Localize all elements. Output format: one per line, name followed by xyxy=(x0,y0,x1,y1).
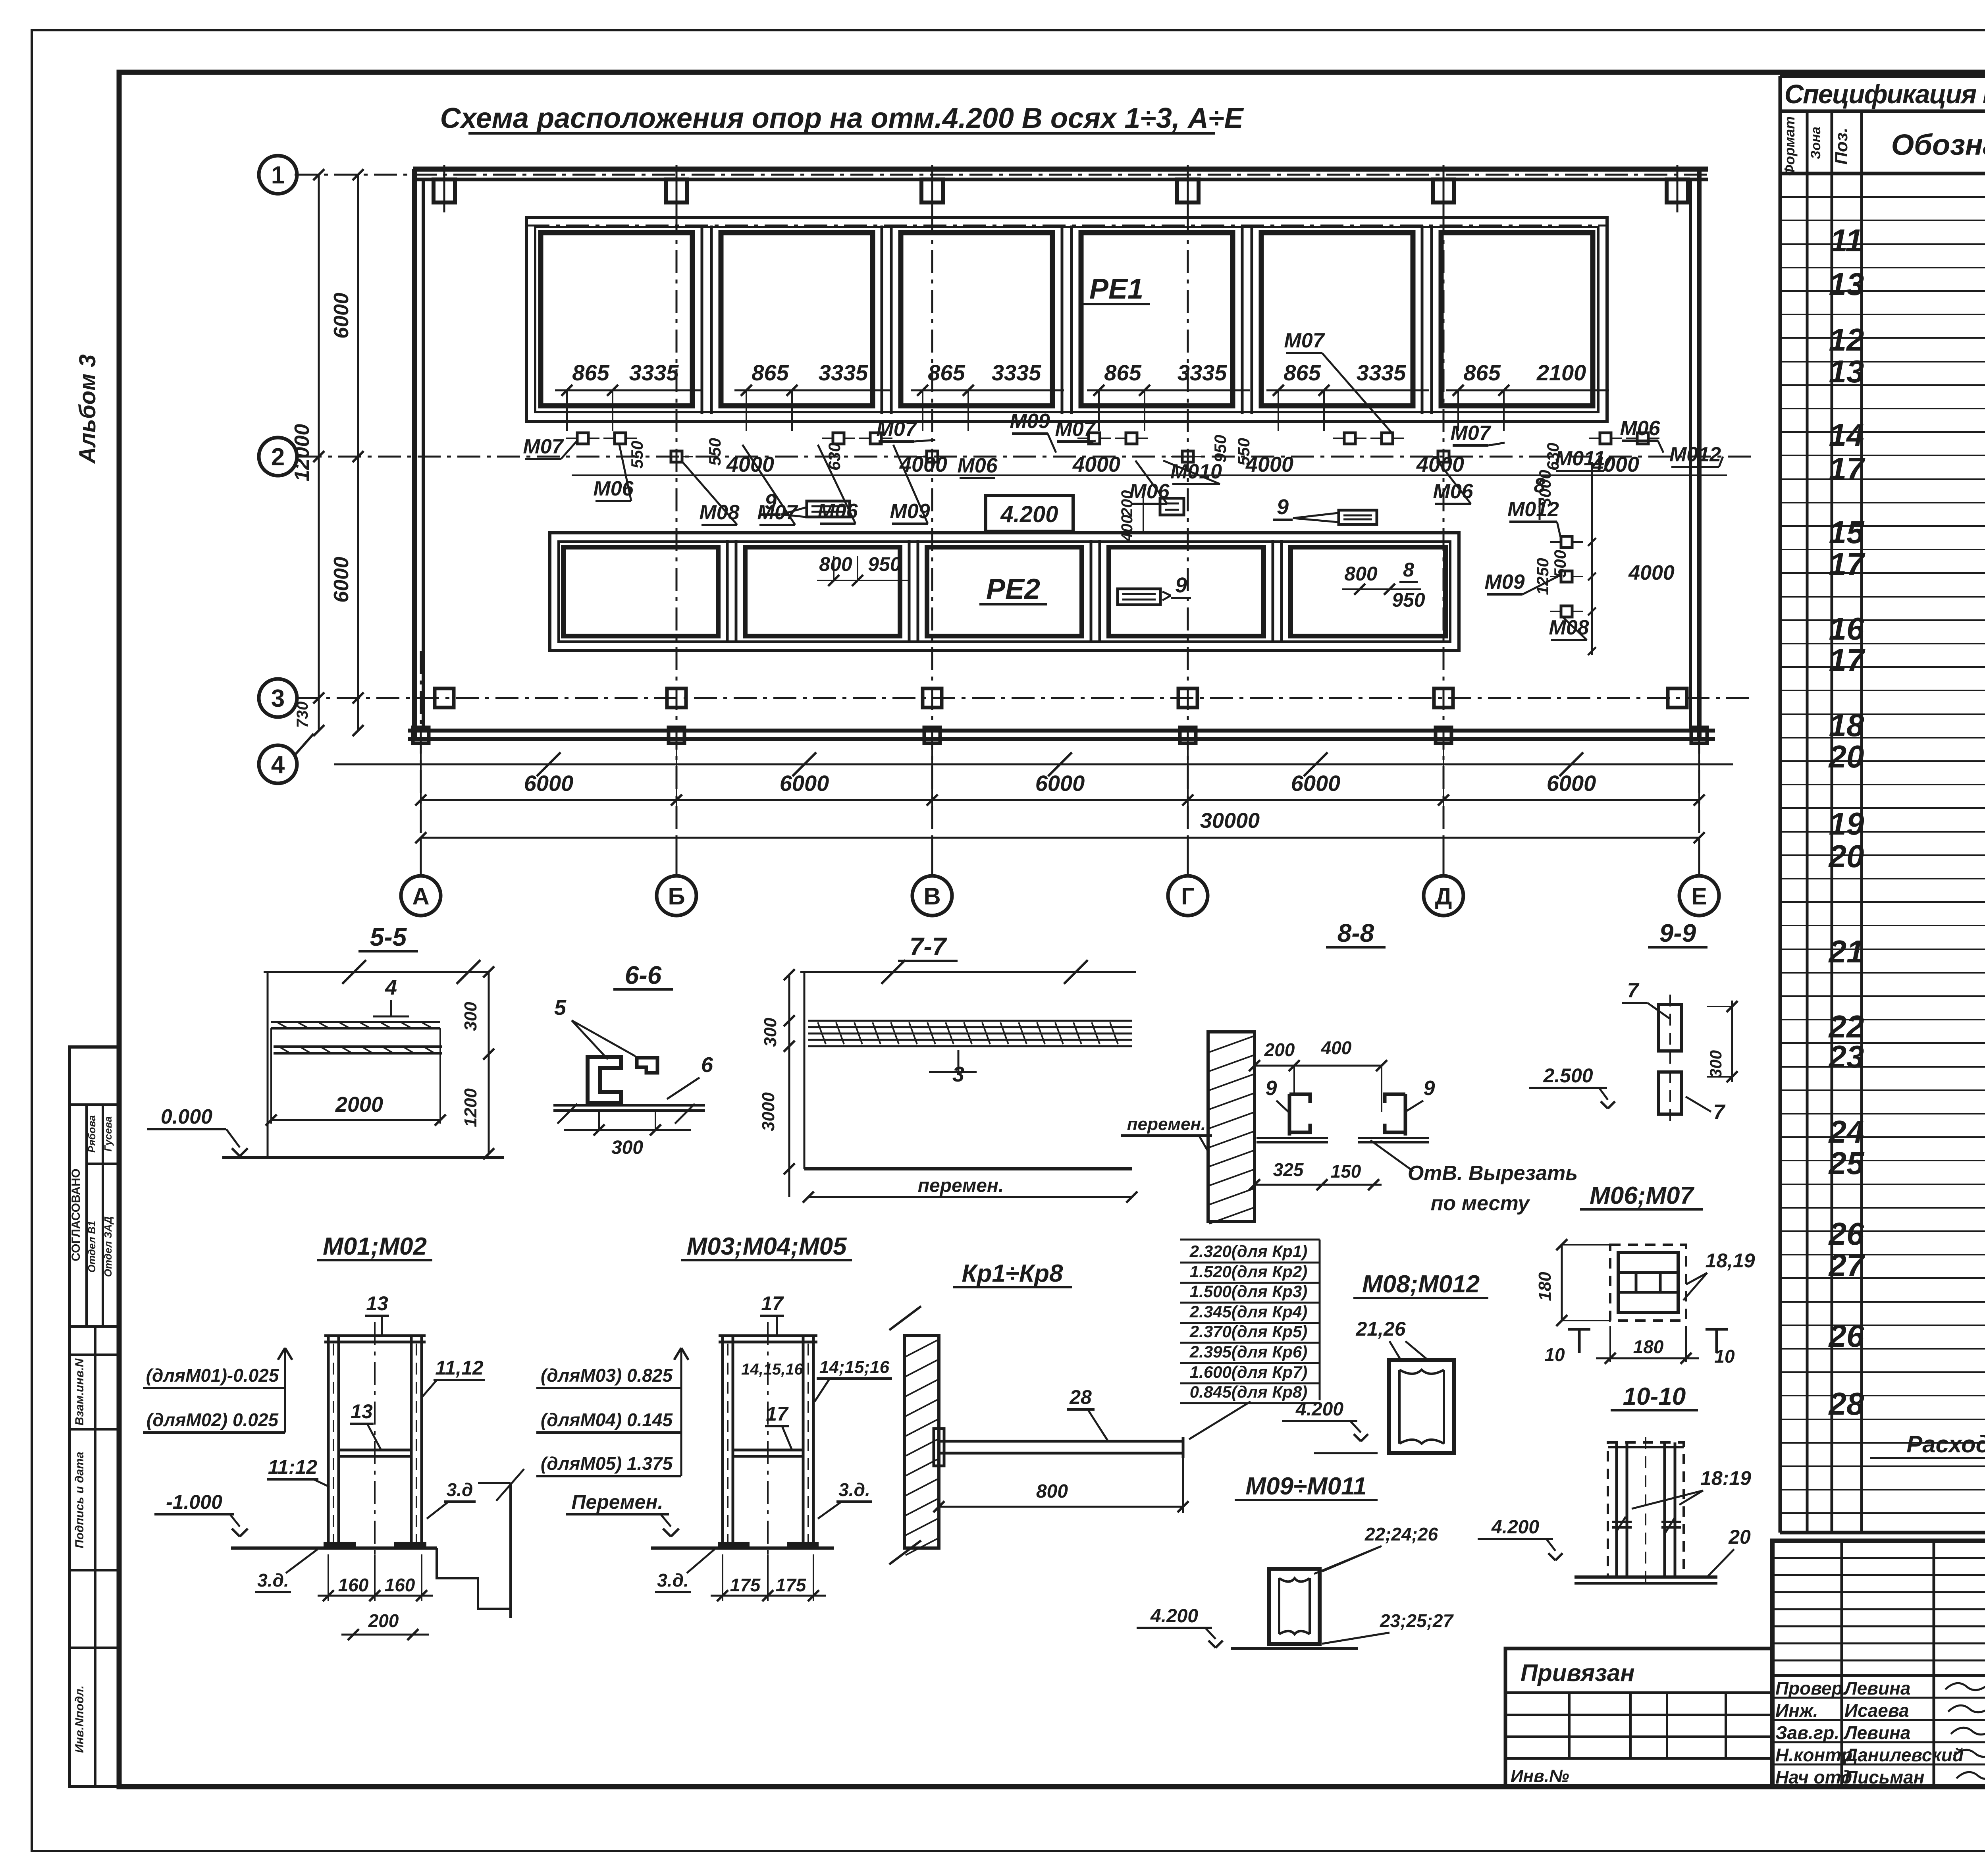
svg-text:0.845(для Кр8): 0.845(для Кр8) xyxy=(1190,1382,1307,1401)
svg-text:6000: 6000 xyxy=(1035,771,1085,796)
svg-text:2.320(для Кр1): 2.320(для Кр1) xyxy=(1189,1242,1307,1261)
svg-text:550: 550 xyxy=(1234,438,1253,466)
svg-text:200: 200 xyxy=(368,1610,399,1631)
svg-text:730: 730 xyxy=(294,702,311,728)
svg-text:М09: М09 xyxy=(1484,571,1524,594)
svg-text:Левина: Левина xyxy=(1843,1678,1910,1699)
svg-text:950: 950 xyxy=(1392,589,1425,611)
svg-text:30000: 30000 xyxy=(1200,809,1260,833)
svg-text:160: 160 xyxy=(385,1575,415,1595)
svg-text:Б: Б xyxy=(668,883,685,910)
svg-text:800: 800 xyxy=(819,553,852,575)
svg-text:150: 150 xyxy=(1331,1161,1361,1182)
svg-text:Инв.№: Инв.№ xyxy=(1511,1766,1569,1786)
svg-text:6000: 6000 xyxy=(1291,771,1341,796)
svg-text:М07: М07 xyxy=(523,435,564,458)
svg-text:Отдел ЗАД: Отдел ЗАД xyxy=(102,1217,114,1277)
svg-text:3.д.: 3.д. xyxy=(838,1479,870,1500)
svg-text:Поз.: Поз. xyxy=(1832,127,1851,164)
svg-text:Исаева: Исаева xyxy=(1844,1700,1909,1721)
svg-text:3335: 3335 xyxy=(629,360,679,385)
svg-text:28: 28 xyxy=(1828,1386,1864,1421)
svg-text:25: 25 xyxy=(1828,1145,1865,1181)
svg-text:175: 175 xyxy=(730,1575,761,1595)
svg-text:1.600(для Кр7): 1.600(для Кр7) xyxy=(1190,1363,1307,1381)
svg-text:5-5: 5-5 xyxy=(370,923,407,951)
svg-text:6000: 6000 xyxy=(330,557,353,603)
svg-text:800: 800 xyxy=(1344,563,1378,585)
svg-text:865: 865 xyxy=(1463,360,1501,385)
svg-text:865: 865 xyxy=(752,360,789,385)
svg-text:800: 800 xyxy=(1036,1481,1068,1502)
svg-text:ОтВ. Вырезать: ОтВ. Вырезать xyxy=(1408,1162,1578,1185)
svg-text:11:12: 11:12 xyxy=(268,1456,317,1478)
svg-text:865: 865 xyxy=(572,360,609,385)
svg-text:15: 15 xyxy=(1829,515,1865,550)
svg-text:2.345(для Кр4): 2.345(для Кр4) xyxy=(1189,1302,1307,1321)
svg-text:21,26: 21,26 xyxy=(1355,1318,1406,1340)
svg-text:865: 865 xyxy=(1104,360,1141,385)
svg-text:А: А xyxy=(412,883,429,910)
svg-text:Провер.: Провер. xyxy=(1775,1678,1848,1699)
svg-text:8: 8 xyxy=(1403,559,1414,581)
svg-text:14: 14 xyxy=(1829,417,1864,453)
svg-text:Формат: Формат xyxy=(1781,116,1798,176)
svg-text:2.370(для Кр5): 2.370(для Кр5) xyxy=(1189,1322,1307,1341)
svg-text:14,15,16: 14,15,16 xyxy=(741,1361,803,1378)
svg-text:1.520(для Кр2): 1.520(для Кр2) xyxy=(1190,1262,1307,1281)
svg-text:М010: М010 xyxy=(1170,460,1222,483)
svg-text:6: 6 xyxy=(701,1053,713,1077)
svg-text:Е: Е xyxy=(1691,883,1707,910)
svg-text:4: 4 xyxy=(271,751,285,779)
svg-text:Альбом 3: Альбом 3 xyxy=(75,354,100,464)
svg-text:27: 27 xyxy=(1828,1247,1866,1283)
svg-text:М06: М06 xyxy=(957,454,998,477)
svg-text:1200: 1200 xyxy=(461,1088,480,1127)
svg-text:М09: М09 xyxy=(1010,410,1050,433)
svg-text:12: 12 xyxy=(1829,322,1864,357)
svg-text:Данилевский: Данилевский xyxy=(1843,1745,1964,1765)
svg-text:17: 17 xyxy=(1829,546,1866,582)
svg-text:М06: М06 xyxy=(1620,417,1660,440)
svg-text:СОГЛАСОВАНО: СОГЛАСОВАНО xyxy=(69,1168,83,1261)
svg-text:Левина: Левина xyxy=(1843,1722,1910,1743)
svg-text:3335: 3335 xyxy=(992,360,1041,385)
svg-text:М07: М07 xyxy=(876,418,917,441)
svg-text:3.д.: 3.д. xyxy=(657,1570,689,1591)
svg-text:3.д: 3.д xyxy=(447,1479,473,1500)
svg-text:7-7: 7-7 xyxy=(910,932,948,961)
svg-text:17: 17 xyxy=(1829,642,1866,678)
svg-text:Взам.инв.N: Взам.инв.N xyxy=(73,1358,86,1425)
svg-text:865: 865 xyxy=(928,360,965,385)
svg-text:Д: Д xyxy=(1435,883,1452,910)
svg-text:13: 13 xyxy=(366,1292,388,1315)
svg-text:26: 26 xyxy=(1828,1216,1864,1251)
svg-text:Письман: Письман xyxy=(1844,1767,1924,1787)
svg-text:23;25;27: 23;25;27 xyxy=(1380,1610,1454,1631)
svg-text:175: 175 xyxy=(776,1575,807,1595)
svg-text:17: 17 xyxy=(1829,451,1866,486)
svg-text:300: 300 xyxy=(461,1002,480,1031)
svg-text:200: 200 xyxy=(1118,490,1136,517)
svg-text:(дляМ04) 0.145: (дляМ04) 0.145 xyxy=(541,1409,673,1430)
svg-text:Инж.: Инж. xyxy=(1775,1700,1818,1721)
svg-text:10-10: 10-10 xyxy=(1623,1383,1686,1410)
svg-text:550: 550 xyxy=(628,441,646,469)
svg-text:950: 950 xyxy=(1211,435,1230,463)
svg-text:400: 400 xyxy=(1321,1037,1352,1058)
svg-text:Обозначение: Обозначение xyxy=(1891,128,1985,161)
svg-text:200: 200 xyxy=(1264,1039,1295,1060)
svg-text:1.500(для Кр3): 1.500(для Кр3) xyxy=(1190,1282,1307,1301)
svg-text:Перемен.: Перемен. xyxy=(571,1491,663,1513)
svg-text:М06;М07: М06;М07 xyxy=(1590,1182,1694,1209)
svg-text:4.200: 4.200 xyxy=(1295,1399,1343,1420)
svg-text:11,12: 11,12 xyxy=(435,1357,484,1379)
svg-text:9: 9 xyxy=(765,490,777,514)
svg-text:17: 17 xyxy=(766,1403,789,1425)
svg-text:19: 19 xyxy=(1829,806,1864,841)
svg-text:6000: 6000 xyxy=(524,771,574,796)
svg-text:М03;М04;М05: М03;М04;М05 xyxy=(686,1233,847,1260)
svg-text:4000: 4000 xyxy=(1072,453,1120,476)
svg-text:3335: 3335 xyxy=(1178,360,1227,385)
svg-text:Спецификация к металлическим: Спецификация к металлическим опорам и кр… xyxy=(1785,79,1985,109)
svg-text:по месту: по месту xyxy=(1431,1192,1531,1215)
svg-text:8-8: 8-8 xyxy=(1337,919,1374,947)
svg-text:9: 9 xyxy=(1424,1077,1435,1100)
svg-text:9: 9 xyxy=(1277,495,1289,519)
svg-text:Отдел В1: Отдел В1 xyxy=(86,1221,98,1273)
svg-text:180: 180 xyxy=(1535,1272,1555,1301)
svg-text:М09: М09 xyxy=(890,500,930,523)
svg-text:12000: 12000 xyxy=(291,424,314,482)
svg-text:13: 13 xyxy=(1829,266,1864,302)
svg-text:Подпись и дата: Подпись и дата xyxy=(73,1452,86,1548)
svg-text:М08;М012: М08;М012 xyxy=(1362,1271,1480,1298)
svg-text:16: 16 xyxy=(1829,611,1864,646)
svg-text:3335: 3335 xyxy=(819,360,868,385)
svg-text:3.д.: 3.д. xyxy=(257,1570,289,1591)
svg-text:(дляМ05) 1.375: (дляМ05) 1.375 xyxy=(541,1453,673,1474)
svg-text:М01;М02: М01;М02 xyxy=(323,1233,427,1260)
svg-text:Рябова: Рябова xyxy=(86,1115,98,1153)
svg-text:3335: 3335 xyxy=(1357,360,1406,385)
svg-text:300: 300 xyxy=(611,1137,643,1158)
svg-text:Зав.гр.: Зав.гр. xyxy=(1775,1722,1839,1743)
svg-text:13: 13 xyxy=(1829,354,1864,389)
svg-text:4.200: 4.200 xyxy=(1000,501,1058,527)
svg-text:4.200: 4.200 xyxy=(1491,1517,1539,1538)
svg-text:14;15;16: 14;15;16 xyxy=(819,1357,890,1377)
svg-text:22;24;26: 22;24;26 xyxy=(1364,1524,1438,1544)
svg-text:9: 9 xyxy=(1175,573,1187,597)
svg-text:Г: Г xyxy=(1181,883,1195,910)
svg-text:10: 10 xyxy=(1544,1344,1565,1365)
svg-text:Гусева: Гусева xyxy=(102,1116,114,1152)
svg-text:Кр1÷Кр8: Кр1÷Кр8 xyxy=(962,1260,1063,1287)
svg-text:3000: 3000 xyxy=(1536,470,1554,507)
svg-text:20: 20 xyxy=(1828,839,1864,874)
svg-text:(дляМ03) 0.825: (дляМ03) 0.825 xyxy=(541,1365,673,1386)
svg-text:18: 18 xyxy=(1829,708,1864,743)
svg-text:1: 1 xyxy=(271,162,285,189)
svg-text:18:19: 18:19 xyxy=(1700,1467,1751,1489)
svg-text:7: 7 xyxy=(1627,979,1640,1002)
svg-text:3000: 3000 xyxy=(759,1092,778,1131)
svg-text:1250: 1250 xyxy=(1533,558,1552,595)
svg-text:М012: М012 xyxy=(1669,443,1721,466)
svg-text:21: 21 xyxy=(1828,934,1864,969)
svg-text:Расход бетона на приямки и сто: Расход бетона на приямки и сточный лоток xyxy=(1906,1431,1985,1458)
svg-text:28: 28 xyxy=(1069,1386,1092,1408)
svg-text:11: 11 xyxy=(1830,223,1863,258)
svg-text:(дляМ01)-0.025: (дляМ01)-0.025 xyxy=(146,1365,279,1386)
svg-text:5: 5 xyxy=(554,996,567,1020)
svg-text:4: 4 xyxy=(385,976,397,999)
svg-text:17: 17 xyxy=(761,1292,784,1315)
svg-text:2.395(для Кр6): 2.395(для Кр6) xyxy=(1189,1342,1307,1361)
svg-text:20: 20 xyxy=(1828,739,1864,774)
svg-text:2: 2 xyxy=(271,443,285,471)
svg-text:РЕ2: РЕ2 xyxy=(986,573,1040,605)
svg-text:2.500: 2.500 xyxy=(1543,1064,1593,1087)
svg-text:23: 23 xyxy=(1828,1039,1864,1074)
svg-text:9-9: 9-9 xyxy=(1659,919,1696,947)
svg-text:18,19: 18,19 xyxy=(1705,1249,1755,1272)
svg-text:6000: 6000 xyxy=(1547,771,1596,796)
svg-text:6000: 6000 xyxy=(330,293,353,339)
svg-text:2000: 2000 xyxy=(335,1093,383,1116)
svg-text:26: 26 xyxy=(1828,1318,1864,1353)
svg-text:(дляМ02) 0.025: (дляМ02) 0.025 xyxy=(146,1409,279,1430)
svg-text:400: 400 xyxy=(1118,515,1136,542)
svg-text:Схема расположения опор на отм: Схема расположения опор на отм.4.200 В о… xyxy=(440,102,1244,134)
svg-text:4.200: 4.200 xyxy=(1150,1606,1198,1627)
svg-text:В: В xyxy=(923,883,940,910)
svg-text:перемен.: перемен. xyxy=(918,1175,1004,1196)
svg-text:500: 500 xyxy=(1551,550,1569,578)
svg-text:4000: 4000 xyxy=(1628,561,1675,584)
svg-text:7: 7 xyxy=(1713,1101,1726,1124)
svg-text:13: 13 xyxy=(351,1400,373,1423)
svg-text:20: 20 xyxy=(1728,1526,1751,1548)
svg-text:6000: 6000 xyxy=(780,771,829,796)
svg-text:9: 9 xyxy=(1266,1077,1277,1100)
svg-text:300: 300 xyxy=(1706,1050,1725,1078)
svg-text:550: 550 xyxy=(705,438,724,466)
svg-text:-1.000: -1.000 xyxy=(166,1491,222,1513)
svg-text:М011: М011 xyxy=(1555,447,1605,470)
svg-text:М07: М07 xyxy=(1450,422,1491,445)
svg-text:160: 160 xyxy=(338,1575,369,1595)
svg-text:перемен.: перемен. xyxy=(1127,1114,1206,1134)
svg-text:РЕ1: РЕ1 xyxy=(1089,273,1143,305)
svg-text:300: 300 xyxy=(761,1018,780,1047)
svg-text:0.000: 0.000 xyxy=(161,1105,212,1128)
svg-text:950: 950 xyxy=(868,553,901,575)
svg-text:М07: М07 xyxy=(1284,329,1325,352)
svg-text:325: 325 xyxy=(1273,1159,1304,1180)
svg-text:М07: М07 xyxy=(1055,418,1096,441)
svg-text:3: 3 xyxy=(271,685,285,712)
svg-text:180: 180 xyxy=(1633,1336,1664,1357)
svg-text:865: 865 xyxy=(1284,360,1321,385)
svg-text:М09÷М011: М09÷М011 xyxy=(1245,1473,1366,1500)
svg-text:2100: 2100 xyxy=(1536,360,1586,385)
svg-text:6-6: 6-6 xyxy=(625,961,662,989)
svg-text:Инв.Nподл.: Инв.Nподл. xyxy=(73,1685,86,1753)
svg-text:Привязан: Привязан xyxy=(1521,1660,1634,1686)
svg-text:24: 24 xyxy=(1828,1114,1864,1149)
svg-text:Зона: Зона xyxy=(1808,127,1823,159)
